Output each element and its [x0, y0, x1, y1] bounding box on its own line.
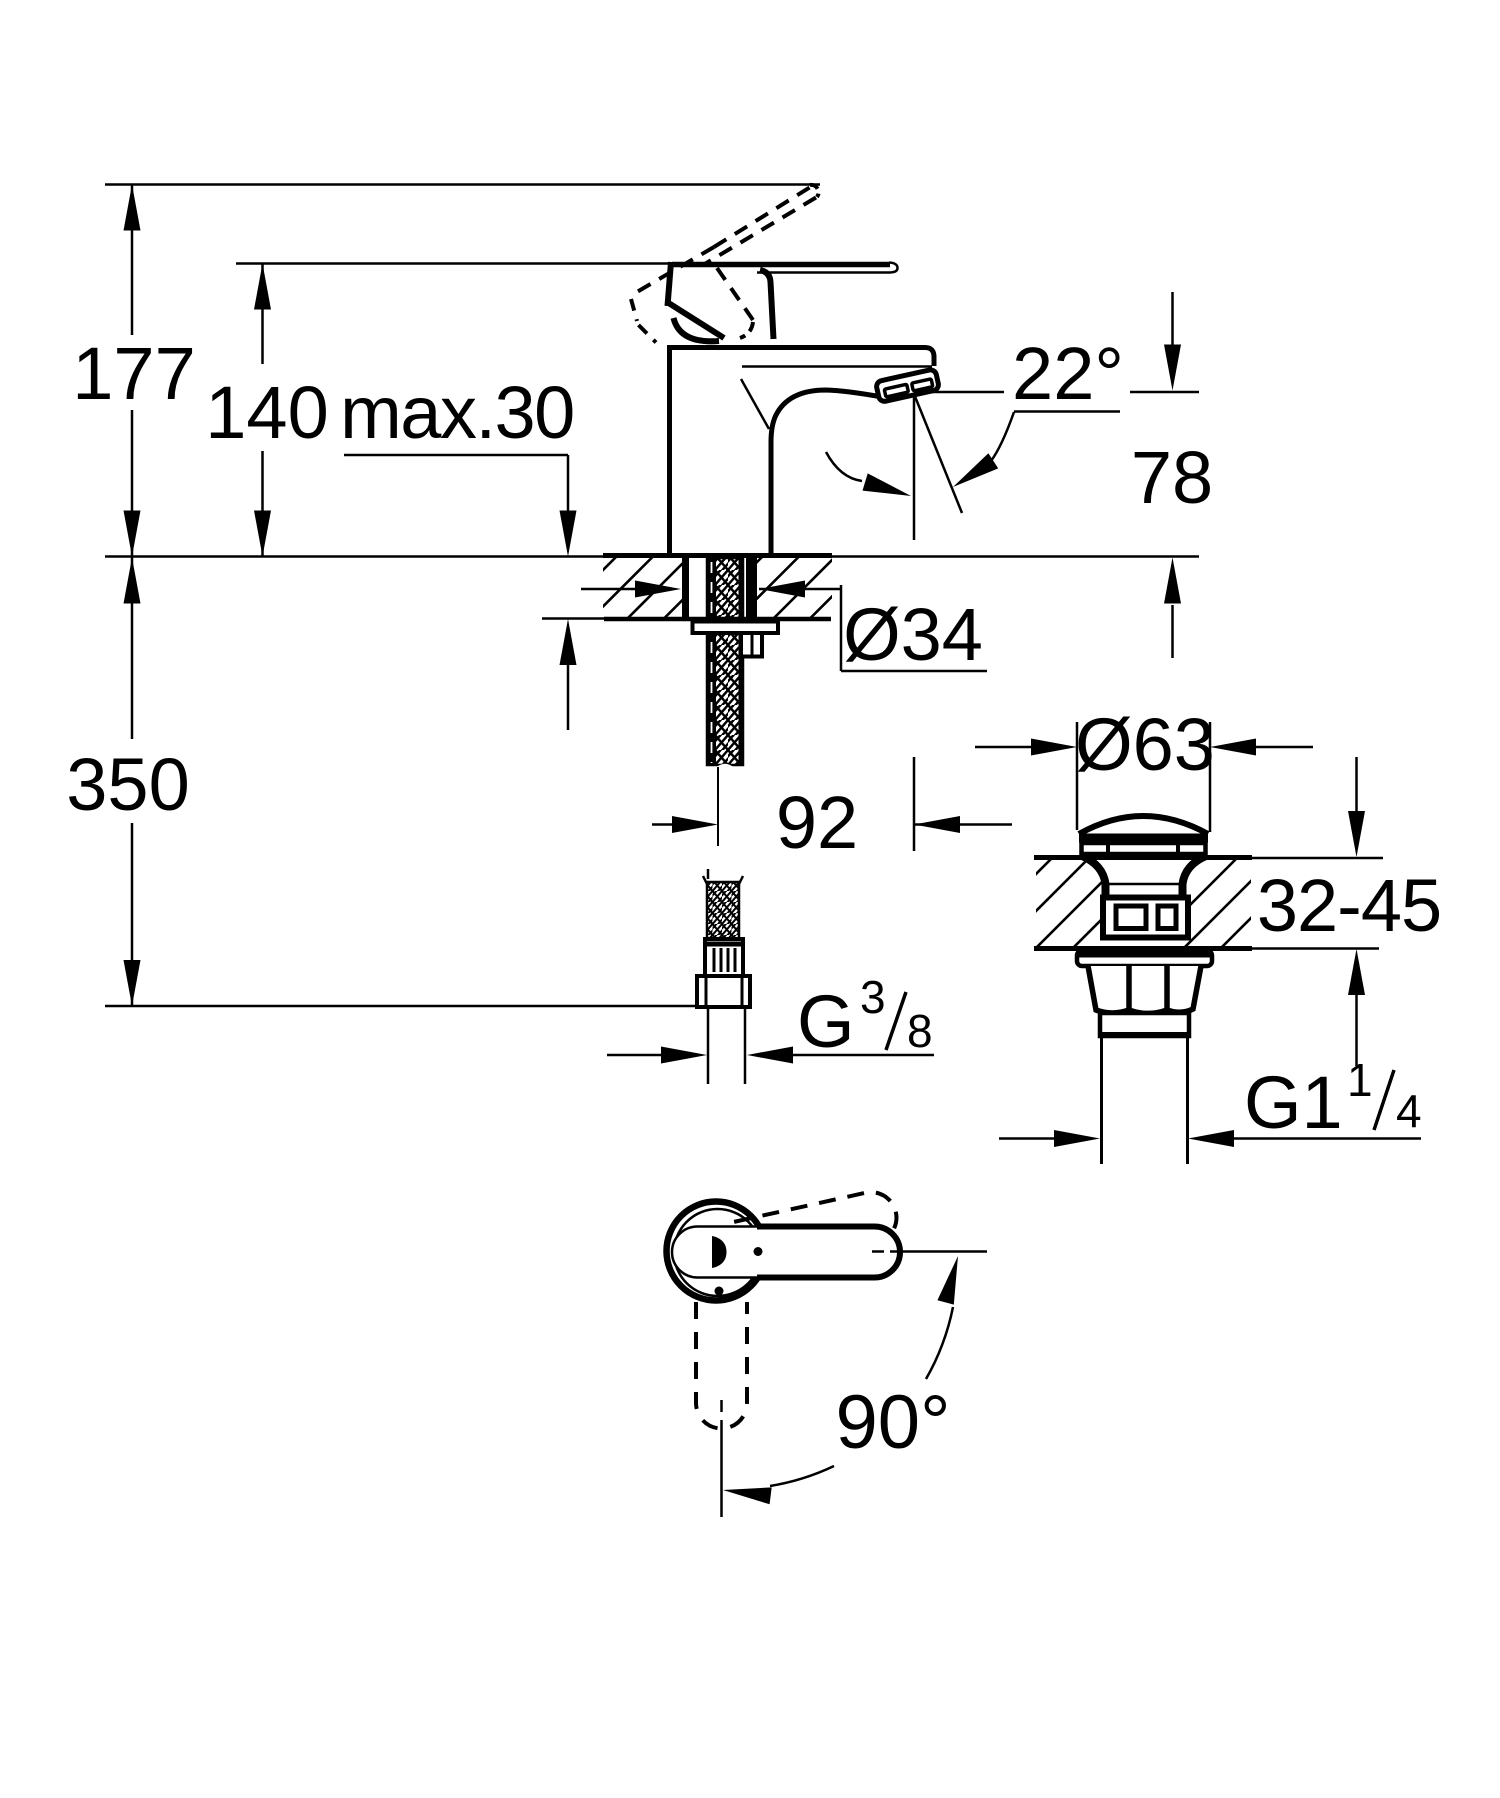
lever centre line	[872, 1250, 987, 1253]
lever down dashed (top view)	[696, 1302, 747, 1429]
svg-text:90°: 90°	[836, 1380, 951, 1465]
dimension O34	[581, 585, 987, 671]
braided hose	[703, 876, 743, 939]
drain cap dome	[1079, 816, 1208, 854]
lever hole mark	[712, 1236, 727, 1268]
arrow 90 top	[937, 1256, 958, 1305]
dot on escutcheon	[715, 1287, 724, 1296]
hose nut	[697, 976, 750, 1007]
hose break dash	[707, 869, 710, 879]
handle raised (dashed) lever	[630, 186, 816, 320]
hose ferrule	[705, 939, 743, 976]
deck bottom line (faucet)	[542, 617, 604, 620]
dimension line 177/350 vertical	[131, 185, 134, 1007]
drain tailpipe	[1102, 1037, 1188, 1164]
drain body neck	[1082, 856, 1206, 938]
label G1 1/4	[1244, 1054, 1422, 1144]
arrow swing left	[863, 473, 912, 496]
escutcheon inner circle	[674, 1209, 761, 1296]
faucet centre line	[717, 767, 719, 846]
shank bottom notch	[716, 764, 734, 768]
svg-text:32-45: 32-45	[1257, 864, 1441, 947]
dimension line 140 vertical	[261, 264, 264, 557]
threaded shank with diamond knurl	[707, 558, 743, 765]
mounting nut tab	[741, 633, 762, 657]
svg-text:350: 350	[66, 743, 189, 826]
aerator	[875, 369, 939, 403]
spout root detail line	[741, 379, 769, 429]
arrow 350 bottom	[124, 960, 141, 1006]
countertop deck line	[105, 555, 1199, 558]
svg-text:Ø34: Ø34	[843, 593, 983, 676]
deck hole left wall	[682, 558, 689, 619]
extension line top (177)	[105, 183, 820, 186]
drain hex nut	[1088, 966, 1201, 1014]
extension line 140 level	[236, 262, 676, 265]
drain step	[1098, 1013, 1191, 1036]
arrow 177 top	[124, 185, 141, 231]
dimension 92	[652, 757, 1012, 851]
svg-text:177: 177	[72, 332, 195, 415]
max.30 leader	[344, 455, 568, 730]
drain neck inner line	[1108, 883, 1180, 886]
arrow 350 top	[124, 558, 141, 604]
vertical centre line	[720, 1400, 723, 1517]
faucet body outline	[667, 345, 934, 554]
svg-text:92: 92	[776, 781, 858, 864]
drain overflow window	[1103, 898, 1188, 938]
arrow swing right	[953, 453, 998, 487]
svg-text:140: 140	[205, 371, 328, 454]
svg-text:G1: G1	[1244, 1061, 1343, 1144]
escutcheon outer circle	[667, 1202, 766, 1301]
dimension 32-45	[1355, 757, 1358, 1066]
90deg arc	[770, 1307, 953, 1486]
spout inner line	[742, 365, 932, 368]
arrow 177 bottom	[124, 511, 141, 557]
dimension O63	[975, 746, 1313, 749]
svg-text:Ø63: Ø63	[1075, 703, 1215, 786]
handle base (solid)	[667, 262, 774, 341]
arrow 140 bottom	[254, 511, 271, 557]
drain deck bottom line	[1034, 946, 1252, 951]
lever bar (top view)	[672, 1227, 900, 1278]
handle lever (solid)	[672, 262, 890, 268]
svg-text:8: 8	[907, 1005, 933, 1057]
svg-text:G: G	[797, 980, 855, 1063]
svg-text:78: 78	[1131, 436, 1213, 519]
drain flange	[1077, 951, 1212, 967]
arrow 90 bottom	[723, 1487, 772, 1504]
svg-text:max.30: max.30	[340, 371, 574, 454]
hose tube G3/8	[708, 1007, 745, 1084]
svg-text:4: 4	[1396, 1085, 1422, 1137]
svg-text:1: 1	[1347, 1054, 1373, 1106]
drain deck top line	[1034, 855, 1252, 860]
dimension 78	[1171, 292, 1174, 658]
dimension G3/8	[607, 1054, 934, 1057]
deck hole right wall	[746, 558, 757, 619]
extension line bottom (350)	[105, 1005, 750, 1008]
svg-text:22°: 22°	[1012, 332, 1124, 415]
22deg spray lines	[826, 392, 1199, 540]
arrow 140 top	[254, 264, 271, 310]
label G3/8	[797, 971, 933, 1063]
dot on lever	[754, 1247, 763, 1256]
mounting washer	[693, 622, 779, 634]
O63 extension lines	[1077, 722, 1210, 832]
lever raised dashed (top view)	[734, 1187, 901, 1271]
svg-text:3: 3	[860, 971, 886, 1023]
dimension G1 1/4	[999, 1137, 1421, 1140]
deck top thick line (faucet)	[603, 553, 832, 558]
